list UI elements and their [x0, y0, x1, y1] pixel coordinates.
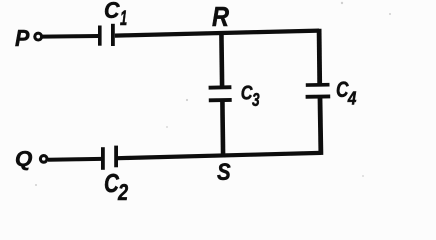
svg-text:1: 1	[120, 6, 127, 30]
svg-text:2: 2	[117, 180, 128, 202]
label C1	[104, 0, 127, 30]
wire Q to C2	[48, 157, 102, 162]
terminal P label	[15, 25, 29, 51]
svg-text:3: 3	[252, 90, 260, 111]
capacitor C3	[209, 87, 232, 100]
wire C3 down to node S	[220, 102, 225, 158]
node R label	[212, 2, 229, 32]
svg-text:P: P	[15, 25, 29, 51]
terminal Q label	[15, 146, 32, 170]
wire node R down to C3	[219, 33, 224, 87]
terminal P	[35, 33, 42, 40]
svg-text:R: R	[212, 2, 229, 32]
wire P to C1	[43, 34, 99, 39]
node S label	[217, 158, 231, 185]
wire top-right corner down to C4	[317, 29, 322, 84]
capacitor C1	[100, 24, 113, 46]
svg-text:4: 4	[347, 89, 357, 109]
label C4	[336, 78, 357, 109]
wire C4 down to bottom-right corner	[318, 98, 324, 155]
label C3	[241, 81, 260, 111]
terminal Q	[40, 156, 47, 163]
svg-text:C: C	[104, 0, 120, 23]
capacitor C4	[306, 85, 331, 97]
capacitor C2	[103, 146, 116, 170]
wire bottom: node S to bottom-right corner	[118, 153, 321, 158]
svg-text:Q: Q	[15, 146, 32, 170]
svg-text:S: S	[217, 158, 231, 185]
label C2	[104, 169, 128, 206]
wire C1 to top-right corner through node R	[115, 31, 319, 36]
